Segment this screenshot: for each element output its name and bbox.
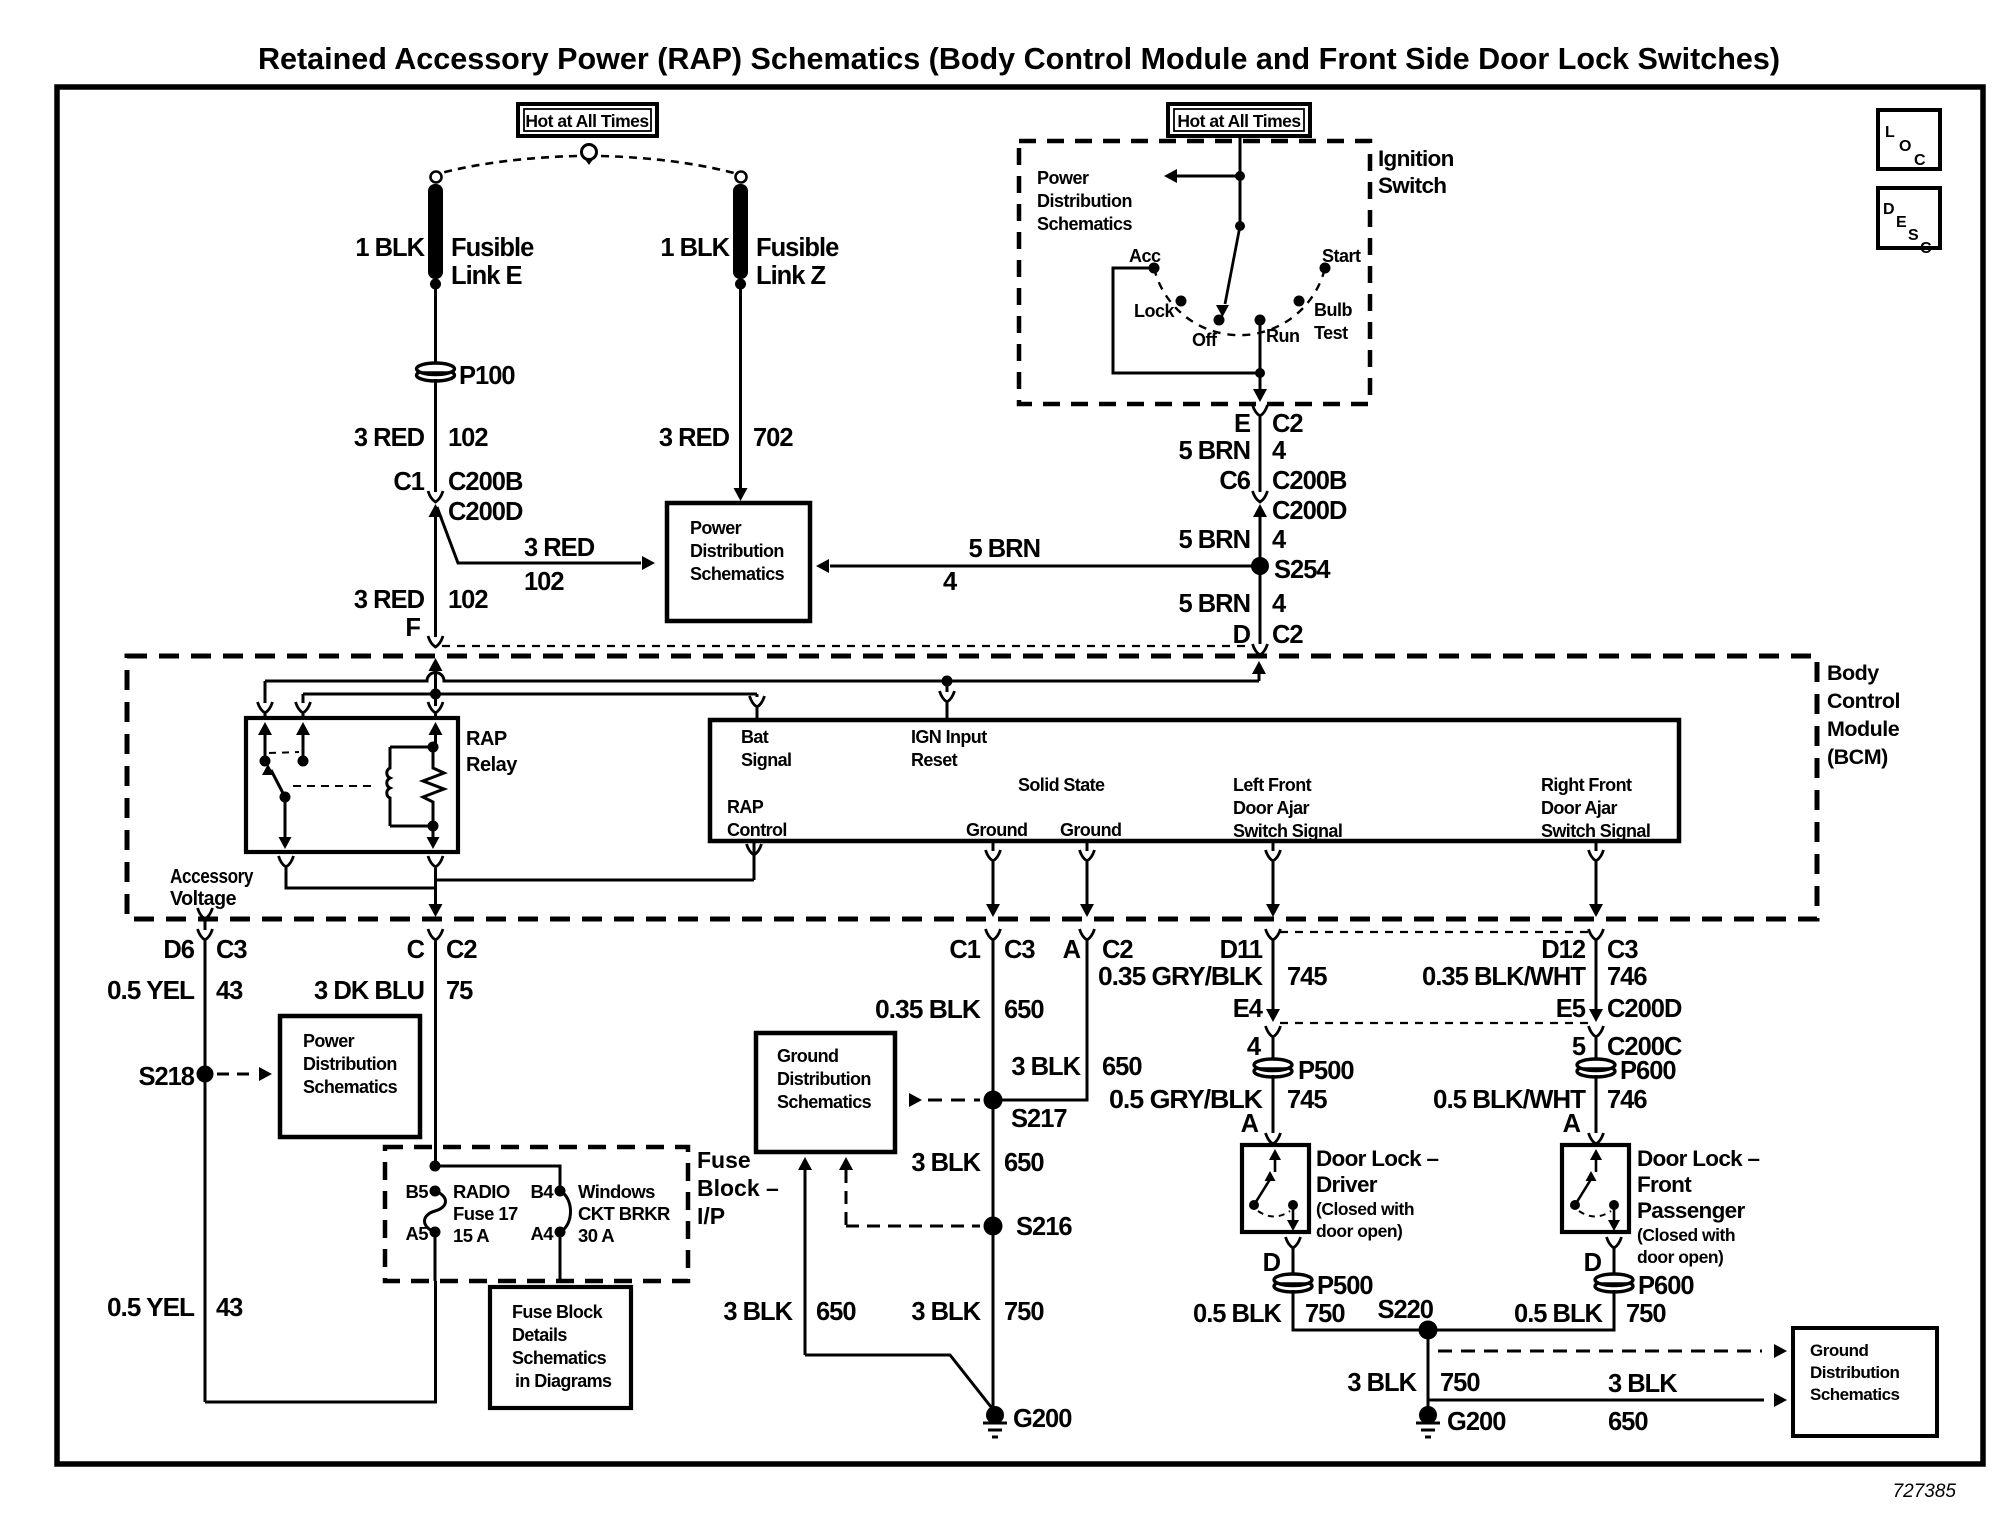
connector fork 5	[1589, 1026, 1604, 1061]
relay coil top bracket	[390, 746, 433, 749]
ground splice G200 left	[986, 1406, 1004, 1424]
svg-text:745: 745	[1287, 963, 1327, 991]
svg-text:B4: B4	[531, 1181, 555, 1202]
svg-text:4: 4	[1272, 526, 1287, 554]
Door Lock Front Passenger box	[1562, 1145, 1629, 1232]
fusible link E	[428, 184, 443, 290]
svg-text:G200: G200	[1013, 1405, 1072, 1433]
connector C200B fork (C6)	[1253, 491, 1268, 502]
svg-text:S217: S217	[1011, 1105, 1067, 1133]
fuse terminal B5	[430, 1186, 441, 1197]
wire Right Front Door Ajar to BCM border	[1589, 862, 1603, 917]
connector E4 arrow	[1266, 1009, 1280, 1022]
svg-text:D: D	[1584, 1249, 1602, 1277]
svg-text:(Closed with: (Closed with	[1637, 1225, 1735, 1245]
splice S216	[984, 1217, 1003, 1236]
svg-text:Windows: Windows	[578, 1181, 655, 1202]
svg-text:750: 750	[1626, 1300, 1666, 1328]
label 3 BLK 650 (branch)	[1011, 1053, 1142, 1081]
connector E fork	[1253, 405, 1268, 416]
Ground Distribution Schematics box (mid)	[756, 1033, 895, 1152]
svg-text:Start: Start	[1322, 246, 1361, 266]
svg-text:Relay: Relay	[466, 754, 518, 776]
wire C exit with arrowhead	[429, 868, 443, 917]
label Left Front Door Ajar Switch Signal	[1233, 775, 1342, 841]
svg-text:Schematics: Schematics	[690, 564, 785, 584]
svg-text:E: E	[1896, 214, 1907, 231]
connector fork relay pin 2	[296, 702, 311, 718]
svg-text:L: L	[1885, 124, 1895, 141]
dashed feed wire to fusible link E	[441, 156, 577, 173]
label Fusible Link Z	[756, 234, 839, 290]
svg-text:0.35 GRY/BLK: 0.35 GRY/BLK	[1098, 963, 1264, 991]
ground symbol G200 right	[1416, 1422, 1440, 1425]
circuit breaker Windows	[560, 1191, 571, 1232]
svg-text:Off: Off	[1192, 330, 1218, 350]
label B5	[406, 1181, 429, 1202]
arrowhead 5 BRN into Power Distribution box	[816, 559, 829, 573]
svg-text:C2: C2	[1102, 936, 1133, 964]
svg-text:30 A: 30 A	[578, 1225, 614, 1246]
node: coil top junction	[428, 742, 439, 753]
svg-text:C: C	[407, 936, 425, 964]
svg-text:Switch: Switch	[1378, 173, 1446, 198]
contact Acc	[1149, 263, 1160, 274]
wire 3 RED 102 from P100 to C200B	[434, 379, 437, 492]
wire 1 BLK from link E to P100	[434, 284, 437, 365]
Body Control Module dashed box	[127, 656, 1817, 919]
svg-text:0.5 BLK: 0.5 BLK	[1193, 1300, 1283, 1328]
svg-text:A: A	[1241, 1110, 1259, 1138]
door lock passenger contact	[1609, 1200, 1619, 1210]
svg-text:3 RED: 3 RED	[354, 586, 425, 614]
splice S218	[197, 1066, 214, 1083]
wire 3 BLK 650 ground feed arrow	[798, 1157, 812, 1355]
connector fork D11	[1266, 929, 1281, 940]
svg-text:Link E: Link E	[451, 262, 523, 290]
svg-text:Schematics: Schematics	[512, 1348, 607, 1368]
wire 3 BLK 650 to Ground Distribution	[1428, 1399, 1764, 1402]
label D12 C3	[1541, 936, 1638, 964]
fusible link E terminal hook	[431, 172, 442, 183]
svg-text:P500: P500	[1317, 1272, 1373, 1300]
connector fork D passenger	[1607, 1237, 1622, 1274]
dashed detent arc	[1154, 268, 1325, 335]
svg-text:Reset: Reset	[911, 750, 958, 770]
relay pin 1 arrow	[258, 722, 272, 761]
svg-text:750: 750	[1305, 1300, 1345, 1328]
splice S254	[1251, 557, 1269, 575]
svg-text:I/P: I/P	[697, 1203, 725, 1229]
connector fork D driver	[1286, 1237, 1301, 1274]
svg-text:Test: Test	[1314, 323, 1348, 343]
connector C200 link line (top)	[442, 645, 1253, 647]
svg-text:Body: Body	[1827, 661, 1879, 685]
wire bottom jog to fuse A5	[205, 1281, 436, 1402]
wire battery bus to relay pin 2	[302, 694, 305, 703]
label Ignition Switch	[1378, 146, 1454, 198]
svg-text:3 BLK: 3 BLK	[723, 1298, 793, 1326]
svg-text:C3: C3	[216, 936, 247, 964]
wire 5 BRN to S254	[1259, 520, 1262, 566]
Fuse Block Details box	[490, 1287, 631, 1408]
connector E5 arrow	[1589, 1009, 1603, 1022]
svg-text:727385: 727385	[1893, 1481, 1957, 1502]
svg-text:A5: A5	[406, 1223, 429, 1244]
svg-text:3 RED: 3 RED	[354, 424, 425, 452]
label 3 BLK 650 (feed)	[723, 1298, 856, 1326]
Power Distribution Schematics box (left)	[280, 1016, 420, 1137]
svg-text:Door Lock –: Door Lock –	[1637, 1146, 1760, 1171]
label Body Control Module (BCM)	[1827, 661, 1900, 769]
contact Off	[1214, 315, 1225, 326]
label Bulb Test	[1314, 300, 1352, 343]
BCM battery bus wire	[303, 693, 757, 696]
svg-text:Link Z: Link Z	[756, 262, 826, 290]
relay contact link dashed	[269, 752, 299, 753]
arrowhead branch into Power Distribution box	[642, 556, 655, 570]
wire RAP control horizontal	[436, 879, 755, 882]
label B4	[531, 1181, 555, 1202]
relay switch blade	[262, 764, 285, 797]
svg-text:door open): door open)	[1637, 1247, 1723, 1267]
connector C200B fork (C1)	[428, 491, 443, 502]
label 0.35 BLK 650	[875, 996, 1044, 1024]
svg-text:C200D: C200D	[448, 498, 523, 526]
svg-text:Block –: Block –	[697, 1175, 779, 1201]
wire 3 BLK 750 to G200	[992, 1226, 995, 1415]
svg-text:Accessory: Accessory	[170, 866, 254, 888]
wire to power distribution (ignition)	[1176, 175, 1240, 178]
connector fork A	[1080, 929, 1095, 940]
door lock driver output	[1287, 1205, 1299, 1231]
wire 3 BLK 650 (A C2 branch)	[1002, 940, 1087, 1100]
svg-text:(BCM): (BCM)	[1827, 745, 1888, 769]
node: coil bottom junction	[428, 821, 439, 832]
Power Distribution Schematics box (center)	[667, 503, 810, 621]
svg-text:750: 750	[1004, 1298, 1044, 1326]
label 0.5 BLK/WHT 746	[1433, 1086, 1647, 1114]
svg-text:Distribution: Distribution	[777, 1069, 871, 1089]
fuse terminal A5	[430, 1227, 441, 1238]
label 1 BLK (link Z)	[660, 234, 730, 262]
svg-text:0.5 YEL: 0.5 YEL	[107, 977, 194, 1005]
svg-text:E5: E5	[1556, 995, 1586, 1023]
svg-text:15 A: 15 A	[453, 1225, 489, 1246]
connector D fork	[1253, 644, 1268, 655]
label E4	[1233, 995, 1264, 1023]
wire 0.35 BLK/WHT 746	[1595, 940, 1598, 1014]
wire ignition output to C200	[1259, 417, 1262, 492]
svg-text:C: C	[1914, 152, 1926, 169]
wire 5 BRN from S254 to D C2	[1259, 566, 1262, 644]
svg-text:Schematics: Schematics	[777, 1092, 872, 1112]
label A4	[531, 1223, 555, 1244]
door lock driver travel arc	[1258, 1211, 1290, 1217]
svg-text:Module: Module	[1827, 717, 1900, 741]
contact Start	[1320, 263, 1331, 274]
svg-text:Solid State: Solid State	[1018, 775, 1105, 795]
arrowhead S220 link	[1774, 1344, 1787, 1358]
svg-text:Fuse 17: Fuse 17	[453, 1203, 518, 1224]
relay resistor	[423, 747, 444, 826]
svg-text:102: 102	[448, 424, 488, 452]
relay contact 1	[260, 756, 271, 767]
arrowhead ignition output	[1253, 389, 1267, 402]
label 3 BLK 750 (left)	[911, 1298, 1044, 1326]
svg-text:door open): door open)	[1316, 1221, 1402, 1241]
svg-text:3 RED: 3 RED	[659, 424, 730, 452]
svg-text:in Diagrams: in Diagrams	[515, 1371, 612, 1391]
svg-text:102: 102	[524, 568, 564, 596]
svg-text:CKT BRKR: CKT BRKR	[578, 1203, 670, 1224]
svg-text:Acc: Acc	[1129, 246, 1161, 266]
label C6 C200B	[1219, 467, 1347, 495]
svg-text:650: 650	[1004, 996, 1044, 1024]
door lock passenger pivot	[1570, 1200, 1580, 1210]
relay actuate dashed link	[293, 785, 377, 787]
fusible link Z terminal hook	[736, 172, 747, 183]
wire Left Front Door Ajar to BCM border	[1266, 862, 1280, 917]
svg-text:4: 4	[1272, 437, 1287, 465]
connector C200D arrow (right)	[1253, 504, 1267, 520]
Hot at All Times box left	[518, 104, 657, 136]
ground splice G200 right	[1419, 1406, 1437, 1424]
svg-text:Signal: Signal	[741, 750, 791, 770]
svg-text:Ignition: Ignition	[1378, 146, 1454, 171]
arrowhead F into BCM	[429, 658, 443, 694]
node: ignition feed junction	[1235, 171, 1245, 181]
svg-text:Power: Power	[690, 518, 742, 538]
label C1 C3 A C2	[949, 936, 1133, 964]
svg-text:C1: C1	[949, 936, 980, 964]
ground symbol G200 left	[983, 1422, 1007, 1425]
svg-text:S218: S218	[138, 1063, 194, 1091]
svg-text:C6: C6	[1219, 467, 1250, 495]
label Power Distribution Schematics (ignition)	[1037, 168, 1133, 234]
svg-text:Retained Accessory Power (RAP): Retained Accessory Power (RAP) Schematic…	[258, 42, 1780, 76]
svg-text:Fuse Block: Fuse Block	[512, 1302, 604, 1322]
wire battery bus to RAP relay	[434, 694, 437, 706]
svg-text:Door Lock –: Door Lock –	[1316, 1146, 1439, 1171]
connector C200D arrow	[429, 504, 443, 520]
door lock passenger blade	[1575, 1171, 1597, 1205]
door lock driver contact	[1288, 1200, 1298, 1210]
svg-text:G200: G200	[1447, 1408, 1506, 1436]
dashed link S218 to Power Distribution	[217, 1073, 252, 1076]
svg-text:Bat: Bat	[741, 727, 769, 747]
svg-text:(Closed with: (Closed with	[1316, 1199, 1414, 1219]
wire ignition bus drop to IGN Input	[946, 681, 949, 692]
svg-text:Schematics: Schematics	[303, 1077, 398, 1097]
svg-text:D: D	[1263, 1249, 1281, 1277]
label 5 BRN 4 (mid)	[1178, 526, 1287, 554]
label E5 C200D	[1556, 995, 1682, 1023]
dashed S216 riser arrow	[839, 1157, 853, 1226]
label C1 C200B	[393, 468, 523, 496]
wire from hot box into ignition switch	[1239, 136, 1242, 176]
svg-text:650: 650	[1004, 1149, 1044, 1177]
label D C2	[1233, 621, 1304, 649]
relay common node	[280, 792, 291, 803]
wire 0.5 GRY/BLK 745	[1272, 1075, 1275, 1133]
door lock passenger output	[1608, 1205, 1620, 1231]
svg-text:S254: S254	[1274, 556, 1331, 584]
Ignition Switch dashed box	[1019, 141, 1370, 404]
grommet P500 lower	[1274, 1274, 1312, 1292]
svg-text:D12: D12	[1541, 936, 1586, 964]
svg-text:A: A	[1063, 936, 1081, 964]
wire 0.35 BLK 650	[992, 940, 995, 1100]
label Windows CKT BRKR 30 A	[578, 1181, 670, 1246]
svg-text:0.35 BLK/WHT: 0.35 BLK/WHT	[1422, 963, 1586, 991]
label 102 (branch)	[524, 568, 564, 596]
svg-text:5 BRN: 5 BRN	[1178, 437, 1250, 465]
connector fork RAP Control	[747, 843, 762, 855]
connector fork IGN Input	[940, 691, 955, 720]
door lock driver input arrow	[1269, 1149, 1281, 1172]
svg-text:C: C	[1920, 240, 1932, 257]
branch wire 3 RED 102 to Power Distribution	[437, 507, 641, 563]
label Door Lock Front Passenger	[1637, 1146, 1760, 1223]
svg-text:C2: C2	[1272, 410, 1303, 438]
svg-text:3 RED: 3 RED	[524, 534, 595, 562]
connector link line D11-D12	[1280, 931, 1589, 933]
wire fuse feed to breaker B4	[435, 1166, 560, 1191]
wire breaker A4 down	[559, 1232, 562, 1281]
door lock driver blade	[1254, 1171, 1276, 1205]
svg-text:Front: Front	[1637, 1172, 1692, 1197]
label 650 (to box)	[1608, 1408, 1648, 1436]
connector fork 4	[1266, 1026, 1281, 1061]
label 0.5 YEL 43 (upper)	[107, 977, 243, 1005]
svg-text:750: 750	[1440, 1369, 1480, 1397]
svg-text:C2: C2	[446, 936, 477, 964]
BCM solid state box	[710, 720, 1679, 841]
svg-text:Driver: Driver	[1316, 1172, 1378, 1197]
arrowhead S218 link	[259, 1067, 272, 1081]
relay coil bottom bracket	[390, 825, 433, 828]
power pin circle	[582, 145, 597, 166]
svg-text:C2: C2	[1272, 621, 1303, 649]
DESC reference box	[1878, 188, 1940, 257]
svg-text:D6: D6	[163, 936, 194, 964]
label D (driver)	[1263, 1249, 1281, 1277]
svg-text:Door Ajar: Door Ajar	[1233, 798, 1310, 818]
svg-text:650: 650	[1608, 1408, 1648, 1436]
svg-text:S216: S216	[1016, 1213, 1072, 1241]
svg-text:Distribution: Distribution	[303, 1054, 397, 1074]
Hot at All Times box right	[1168, 104, 1310, 136]
door lock passenger input arrow	[1590, 1149, 1602, 1172]
svg-text:3 BLK: 3 BLK	[1011, 1053, 1081, 1081]
svg-text:Ground: Ground	[1060, 820, 1121, 840]
connector fork D12/C3	[1589, 929, 1604, 940]
svg-text:O: O	[1899, 138, 1911, 155]
connector fork A passenger	[1589, 1133, 1604, 1144]
svg-text:D11: D11	[1220, 936, 1263, 964]
label 3 BLK 750 (right)	[1347, 1369, 1480, 1397]
svg-text:Ground: Ground	[966, 820, 1027, 840]
svg-text:P600: P600	[1638, 1272, 1694, 1300]
svg-text:650: 650	[1102, 1053, 1142, 1081]
svg-text:Switch Signal: Switch Signal	[1541, 821, 1650, 841]
svg-text:A: A	[1563, 1110, 1581, 1138]
grommet P500 upper	[1254, 1059, 1292, 1077]
connector fork Bat Signal	[750, 696, 765, 720]
wire 5 BRN 4 from S254 to Power Distribution box	[830, 565, 1260, 568]
label 0.5 BLK 750 (driver)	[1193, 1300, 1345, 1328]
svg-text:Right Front: Right Front	[1541, 775, 1632, 795]
svg-text:RAP: RAP	[466, 728, 507, 750]
svg-text:4: 4	[1272, 590, 1287, 618]
svg-text:3 BLK: 3 BLK	[1347, 1369, 1417, 1397]
svg-text:5 BRN: 5 BRN	[1178, 590, 1250, 618]
svg-text:43: 43	[216, 977, 243, 1005]
connector fork A driver	[1266, 1133, 1281, 1144]
svg-text:Distribution: Distribution	[1037, 191, 1132, 211]
label D (passenger)	[1584, 1249, 1602, 1277]
svg-text:D: D	[1233, 621, 1251, 649]
label RAP Control	[727, 797, 787, 840]
label closed with door open (driver)	[1316, 1199, 1414, 1241]
wire 0.5 BLK 750 driver	[1293, 1290, 1428, 1330]
svg-text:Control: Control	[727, 820, 787, 840]
wire Acc to Run rail	[1113, 268, 1260, 373]
wire Run down to exit	[1259, 320, 1262, 392]
wire 0.5 BLK/WHT 746	[1595, 1075, 1598, 1133]
RAP relay box	[246, 718, 458, 852]
arrowhead into Power Distribution box	[734, 488, 748, 501]
svg-text:F: F	[405, 614, 420, 642]
label A (passenger)	[1563, 1110, 1581, 1138]
label 4 (to box)	[943, 568, 958, 596]
svg-text:0.5 BLK: 0.5 BLK	[1514, 1300, 1604, 1328]
arrowhead D into BCM	[1252, 661, 1266, 681]
wire 0.35 GRY/BLK 745	[1272, 940, 1275, 1014]
wire ignition feed down	[1239, 176, 1242, 226]
label IGN Input Reset	[911, 727, 987, 770]
relay contact 2	[298, 756, 309, 767]
wire ignition bus to relay pin 1	[264, 681, 267, 703]
relay coil	[387, 747, 390, 826]
relay common output	[279, 797, 292, 849]
connector fork C1	[986, 929, 1001, 940]
label Accessory Voltage	[170, 866, 254, 910]
grommet P100	[417, 363, 455, 381]
svg-text:C3: C3	[1607, 936, 1638, 964]
svg-text:C3: C3	[1004, 936, 1035, 964]
svg-text:Power: Power	[1037, 168, 1089, 188]
label 3 BLK 650 (mid)	[911, 1149, 1044, 1177]
connector fork Ground 1 pin	[986, 841, 1001, 861]
Door Lock Driver box	[1242, 1145, 1309, 1232]
svg-text:Power: Power	[303, 1031, 355, 1051]
dashed feed wire to fusible link Z	[601, 156, 734, 173]
connector fork accessory voltage	[198, 908, 213, 930]
label Door Lock Driver	[1316, 1146, 1439, 1197]
label 3 DK BLU 75	[314, 977, 473, 1005]
svg-text:A4: A4	[531, 1223, 555, 1244]
svg-text:1 BLK: 1 BLK	[660, 234, 730, 262]
connector fork relay output left	[279, 856, 294, 867]
svg-text:B5: B5	[406, 1181, 429, 1202]
svg-text:4: 4	[1247, 1033, 1262, 1061]
label 0.35 BLK/WHT 746	[1422, 963, 1647, 991]
contact Run	[1255, 315, 1266, 326]
dashed link S220 to Ground Distribution	[1438, 1350, 1762, 1353]
svg-text:RADIO: RADIO	[453, 1181, 510, 1202]
